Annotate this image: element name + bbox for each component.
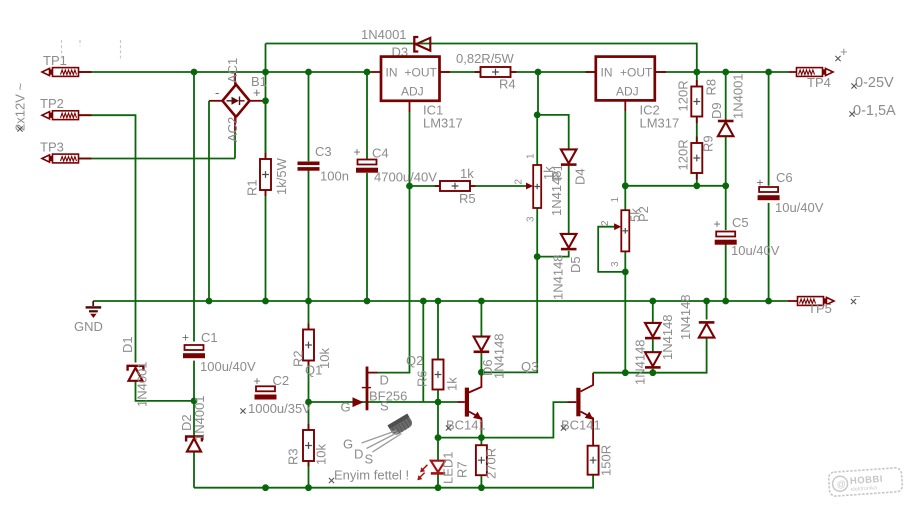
wire D1 bottom to C1/D2 node <box>136 381 195 401</box>
resistor R5 1k <box>440 181 470 191</box>
svg-text:1: 1 <box>610 197 621 203</box>
resistor R6 1k <box>433 360 444 390</box>
potentiometer P2 5k <box>621 210 629 251</box>
svg-text:C5: C5 <box>732 215 749 230</box>
svg-text:1N4148: 1N4148 <box>492 333 507 379</box>
resistor R10 150R <box>588 446 599 475</box>
wire R2 R3 column below rail x=308.5 <box>308 301 310 488</box>
wire R6 column x=438 <box>437 301 439 402</box>
resistor R1 1k/5W <box>260 159 271 190</box>
svg-text:1N4148: 1N4148 <box>678 294 693 340</box>
wire TP3 pin stub <box>79 158 92 160</box>
svg-text:R6: R6 <box>415 370 430 387</box>
resistor R8 120R <box>691 87 702 117</box>
svg-text:1: 1 <box>526 153 537 159</box>
test point TP4 (output +) <box>797 68 823 77</box>
junction Q2 emitter / R7 node <box>478 434 485 441</box>
wire C6 column x=768.6 <box>768 72 770 301</box>
capacitor C6 10u/40V <box>759 187 778 192</box>
wire IC2 OUT to TP4 y=72 <box>655 71 789 73</box>
svg-text:C2: C2 <box>273 373 290 388</box>
svg-text:Q3: Q3 <box>521 359 538 374</box>
wire Q1 gate/source row y=402 <box>309 401 458 403</box>
wire R8/R9 column x=696.8 <box>696 72 698 186</box>
svg-text:+: + <box>253 85 261 100</box>
svg-text:R9: R9 <box>701 135 716 152</box>
svg-text:D5: D5 <box>568 256 583 273</box>
ground symbol GND <box>92 301 94 306</box>
diode pair 1N4148 upper (cathode down) <box>645 323 661 337</box>
svg-text:100n: 100n <box>320 169 349 184</box>
svg-text:+: + <box>182 331 189 345</box>
junction P1 bottom / D5 node <box>534 253 541 260</box>
svg-text:2x12V ~: 2x12V ~ <box>13 83 28 131</box>
wire bridge AC1 pin <box>234 72 236 85</box>
svg-text:S: S <box>380 399 389 414</box>
junction D4 branch node <box>534 112 541 119</box>
capacitor C5 10u/40V <box>716 232 735 237</box>
wire Q3 emitter down to R10 <box>581 412 594 446</box>
capacitor C4 4700u/40V <box>358 160 377 165</box>
wire IC1 ADJ pin down to R5 node <box>409 101 411 112</box>
svg-text:1N4001: 1N4001 <box>361 27 407 42</box>
wire D6 column x=481.4 <box>480 301 482 372</box>
diode D2 1N4001 <box>186 437 202 442</box>
svg-text:D: D <box>380 373 389 388</box>
svg-text:10u/40V: 10u/40V <box>731 243 780 258</box>
svg-text:G: G <box>341 400 351 415</box>
svg-text:R1: R1 <box>245 179 260 196</box>
junction dots bottom negative wire y=487.7 <box>262 484 269 491</box>
TO-92 package drawing of BF256 <box>388 414 415 437</box>
wire top bypass net (IC1 IN net, y=43.5) <box>266 44 697 73</box>
wire Q3 collector node row y=372.7 and single 1N4148 up to rail <box>593 301 707 373</box>
diode D6 1N4148 <box>474 337 490 351</box>
test point TP2 <box>42 112 50 119</box>
wire IC2 ADJ pin down to R9/D9 row <box>624 100 626 111</box>
bridge rectifier B1 <box>223 85 250 118</box>
wire x=423.3 from rail down to Q1 source <box>422 301 424 402</box>
svg-text:0,82R/5W: 0,82R/5W <box>456 51 515 66</box>
junction dots Q3 collector node row <box>622 369 629 376</box>
wire TP1/AC1 horizontal y=72 <box>79 71 371 73</box>
wire R5 row y=186 <box>410 185 528 187</box>
test point TP3 <box>42 155 50 162</box>
svg-text:Q1: Q1 <box>305 363 322 378</box>
wire vertical x=194 (TP1 wire down to C1) <box>193 72 195 342</box>
junction D1/C1/D2 node <box>191 398 198 405</box>
wire Q3 collector up to node <box>581 373 594 392</box>
wire C1 bottom <box>193 361 195 401</box>
leads of TO-92 drawing <box>362 431 402 453</box>
svg-text:AC1: AC1 <box>225 58 240 83</box>
svg-text:+OUT: +OUT <box>405 66 438 80</box>
svg-text:1N4148: 1N4148 <box>660 314 675 360</box>
frame dash marks top left <box>62 40 121 59</box>
transistor Q1 BF256 JFET <box>366 367 369 411</box>
wire vertical x=538 from R4 output down to D4/P1 node <box>537 72 539 115</box>
svg-text:+: + <box>757 176 764 190</box>
junction dots IC2 ADJ row y=185.8 <box>622 182 629 189</box>
wire ADJ node down to Q1 drain <box>378 186 410 373</box>
svg-text:1k: 1k <box>460 166 474 181</box>
diode D9 1N4001 (cathode up) <box>718 120 734 123</box>
capacitor C2 1000u/35V <box>256 386 275 391</box>
wire P1 column x=537.2 <box>536 115 538 257</box>
svg-text:@: @ <box>836 479 846 490</box>
test point TP5 (output -) <box>798 297 824 306</box>
test point TP1 <box>42 68 50 75</box>
svg-text:D: D <box>354 447 363 462</box>
wire TP5 pin stub <box>788 300 798 302</box>
svg-text:TP1: TP1 <box>43 53 67 68</box>
junction IC1 ADJ / R5 node <box>406 183 413 190</box>
resistor R9 120R <box>691 143 702 173</box>
junction dots ground rail y=301 <box>206 298 213 305</box>
junction dots input net y=72 <box>191 69 198 76</box>
wire 1N4148 series pair column x=652.8 <box>652 301 654 373</box>
wire TP2 to D1 (right then down) <box>79 115 136 362</box>
junction R2/R3/Q1-gate node <box>305 399 312 406</box>
svg-text:100u/40V: 100u/40V <box>200 359 256 374</box>
wire input net vertical x=265.5 (top wire down to bridge + / R1) <box>265 44 267 155</box>
svg-text:R4: R4 <box>499 77 516 92</box>
svg-text:+: + <box>254 374 261 388</box>
svg-text:270R: 270R <box>484 448 499 479</box>
svg-text:Enyim fettel !: Enyim fettel ! <box>334 468 409 483</box>
svg-text:1k/5W: 1k/5W <box>274 157 289 195</box>
wire Q2 base pin stub <box>458 401 465 403</box>
svg-text:10u/40V: 10u/40V <box>775 200 824 215</box>
svg-text:C1: C1 <box>201 330 218 345</box>
svg-text:BC141: BC141 <box>446 418 486 433</box>
junction bridge plus output <box>262 97 269 104</box>
svg-text:Q2: Q2 <box>406 353 423 368</box>
svg-text:BC141: BC141 <box>561 418 601 433</box>
wire TP3 to bridge AC2 y=158.5 <box>79 158 235 160</box>
svg-text:LM317: LM317 <box>640 116 680 131</box>
svg-text:C4: C4 <box>372 146 389 161</box>
junction Q2 collector / D6 node <box>478 369 485 376</box>
svg-text:1000u/35V: 1000u/35V <box>248 401 311 416</box>
svg-text:ADJ: ADJ <box>616 85 639 99</box>
svg-text:AC2: AC2 <box>225 117 240 142</box>
diode D3 1N4001 (horizontal, cathode left) <box>414 37 418 52</box>
wire ground rail y=301 <box>93 300 788 302</box>
svg-text:1N4001: 1N4001 <box>192 395 207 441</box>
diode D5 1N4148 <box>561 234 577 248</box>
diode pair 1N4148 lower (cathode down) <box>645 352 661 366</box>
LED LED1 <box>431 461 445 473</box>
potentiometer P1 1k <box>533 165 541 208</box>
svg-text:2: 2 <box>514 179 525 185</box>
wire IC1 OUT to R4 to IC2 IN y=72 <box>440 71 596 73</box>
svg-text:P2: P2 <box>636 206 651 222</box>
svg-text:R2: R2 <box>291 350 306 367</box>
svg-text:0-25V: 0-25V <box>855 75 894 91</box>
svg-text:3: 3 <box>610 261 621 267</box>
wire C4 column x=367 <box>366 72 368 301</box>
svg-text:1N4001: 1N4001 <box>135 361 150 407</box>
transistor Q3 BC141 <box>576 388 580 417</box>
capacitor C1 100u/40V <box>185 345 204 350</box>
svg-text:R8: R8 <box>704 79 719 96</box>
wire LED column x=438 <box>437 402 439 488</box>
junction R6 bottom node <box>435 399 442 406</box>
svg-text:1N4001: 1N4001 <box>731 73 746 119</box>
svg-text:2: 2 <box>600 220 611 226</box>
svg-text:10k: 10k <box>314 444 329 465</box>
capacitor C3 100n <box>298 162 320 166</box>
wire Q3 base pin stub <box>568 401 577 403</box>
svg-text:ADJ: ADJ <box>401 85 424 99</box>
diode D1 1N4001 <box>128 366 144 371</box>
wire Q2 emitter down <box>469 412 482 438</box>
wire Q2 collector <box>469 372 482 392</box>
wire ADJ2 row y=185.8 <box>625 185 725 187</box>
resistor R3 10k <box>303 430 314 461</box>
wire R7 column x=481.4 <box>480 438 482 488</box>
svg-text:TP2: TP2 <box>40 96 64 111</box>
svg-text:LM317: LM317 <box>423 116 463 131</box>
wire P2 pins and wiper loop <box>598 186 625 272</box>
svg-text:TP4: TP4 <box>807 75 831 90</box>
svg-text:-: - <box>215 85 219 100</box>
wire bridge minus pin to ground rail <box>209 100 223 102</box>
svg-text:C3: C3 <box>315 144 332 159</box>
svg-text:R5: R5 <box>459 191 476 206</box>
resistor R2 10k <box>303 330 314 361</box>
svg-text:4700u/40V: 4700u/40V <box>374 170 437 185</box>
wire TP2 pin stub <box>79 114 92 116</box>
resistor R4 0,82R/5W <box>481 67 511 77</box>
svg-text:1k: 1k <box>445 377 460 391</box>
svg-text:+: + <box>840 44 848 59</box>
wire D9/C5 column x=725.7 <box>725 72 727 301</box>
diode D4 1N4148 <box>561 149 577 163</box>
wire LED node row y=437.6 and step up to Q3 base <box>438 402 568 438</box>
wire P2 column down across rail to Q3 collector node <box>624 272 626 373</box>
wire C3 column x=308.5 <box>308 72 310 301</box>
svg-text:LED1: LED1 <box>441 451 456 484</box>
wire IC1 IN pin stub <box>371 71 382 73</box>
wire R1 column x=265.5 <box>265 101 267 301</box>
svg-text:1N4148: 1N4148 <box>551 254 566 300</box>
svg-text:R3: R3 <box>286 448 301 465</box>
svg-text:+: + <box>354 145 361 159</box>
svg-text:IN: IN <box>386 66 398 80</box>
wire TP1 pin stub <box>79 71 92 73</box>
wire node at (538,115) right to D4 and down D4-D5 chain <box>537 115 569 257</box>
svg-text:1N4148: 1N4148 <box>549 170 564 216</box>
wire bridge plus pin <box>250 100 266 102</box>
svg-text:120R: 120R <box>676 139 691 170</box>
op-amp-box IC1 LM317 regulator <box>381 57 440 101</box>
resistor R7 270R <box>476 445 487 475</box>
svg-text:150R: 150R <box>599 445 614 476</box>
svg-text:D4: D4 <box>573 168 588 185</box>
svg-text:S: S <box>365 452 374 467</box>
wire D2 and bottom negative wire y=487.7 <box>194 401 593 488</box>
op-amp-box IC2 LM317 regulator <box>596 57 655 101</box>
svg-text:D1: D1 <box>120 336 135 353</box>
svg-text:G: G <box>343 437 353 452</box>
svg-text:120R: 120R <box>676 80 691 111</box>
wire P1 bottom node down across rail to Q2 collector node <box>481 257 537 373</box>
wire bridge AC2 pin down <box>234 117 236 132</box>
svg-text:+: + <box>714 217 721 231</box>
watermark logo hobbi elektronika <box>828 467 902 496</box>
svg-text:GND: GND <box>74 319 103 334</box>
svg-text:1N4148: 1N4148 <box>633 339 648 385</box>
svg-text:TP5: TP5 <box>808 301 832 316</box>
svg-text:0-1,5A: 0-1,5A <box>853 103 896 119</box>
svg-text:3: 3 <box>526 216 537 222</box>
transistor Q2 BC141 <box>465 388 469 417</box>
svg-text:C6: C6 <box>776 170 793 185</box>
diode single 1N4148 (cathode up) <box>699 321 715 324</box>
svg-text:IN: IN <box>601 66 613 80</box>
svg-text:R7: R7 <box>455 461 470 478</box>
junction LED1 top node <box>435 434 442 441</box>
svg-text:D9: D9 <box>709 102 724 119</box>
junction P2 wiper loop node <box>622 269 629 276</box>
svg-text:TP3: TP3 <box>40 140 64 155</box>
svg-text:+OUT: +OUT <box>620 66 653 80</box>
